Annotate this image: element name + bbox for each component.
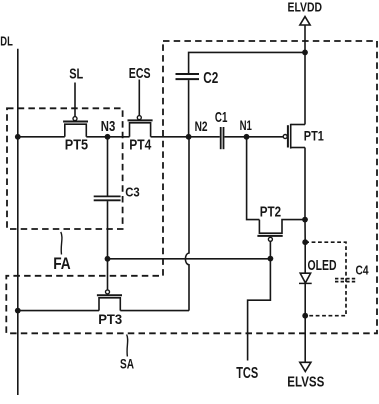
wire OLED bottom to ELVSS xyxy=(304,316,306,362)
svg-text:PT5: PT5 xyxy=(65,138,88,154)
svg-text:N2: N2 xyxy=(195,118,208,134)
capacitor C1 xyxy=(221,127,224,149)
svg-text:PT4: PT4 xyxy=(129,138,151,154)
node junction ELVDD-C2 xyxy=(302,50,308,56)
svg-text:PT2: PT2 xyxy=(260,204,281,220)
power symbol ELVDD arrow xyxy=(300,17,310,25)
transistor PT5 xyxy=(63,117,88,137)
wire PT4 to N2 xyxy=(151,136,189,138)
wire PT2 gate lead down xyxy=(269,241,271,258)
node N1 xyxy=(244,134,250,140)
wire main row left (DL to PT5) xyxy=(18,136,65,138)
transistor PT3 xyxy=(97,290,122,311)
wire N3 to PT4 xyxy=(108,136,130,138)
node junction DL-row1 xyxy=(15,134,21,140)
svg-text:PT1: PT1 xyxy=(304,127,324,143)
svg-text:ELVDD: ELVDD xyxy=(288,0,323,14)
wire N1 branch down to PT2 xyxy=(247,137,260,220)
svg-text:C3: C3 xyxy=(125,185,140,200)
node junction OLED top xyxy=(302,239,308,245)
node junction PT2-PT1 source xyxy=(302,217,308,223)
capacitor C2 xyxy=(176,74,200,79)
capacitor C4 dashed plates xyxy=(335,279,356,282)
wire C3 junction to PT2 gate junction xyxy=(108,258,271,260)
svg-text:C4: C4 xyxy=(356,263,369,277)
wire PT3 to riser xyxy=(120,310,189,312)
wire PT1 drain from ELVDD junction xyxy=(304,52,306,124)
wire OLED to bottom junction xyxy=(304,283,306,315)
svg-text:ELVSS: ELVSS xyxy=(287,374,324,390)
wire riser PT3 to N2 with hop xyxy=(185,137,189,311)
wire top horizontal to C2 branch xyxy=(189,52,305,73)
svg-text:SA: SA xyxy=(120,356,134,372)
wire PT3 gate lead xyxy=(107,259,109,290)
wire N3 branch down to C3 xyxy=(107,137,109,196)
wire SL gate lead xyxy=(74,83,76,117)
svg-text:FA: FA xyxy=(53,254,70,273)
capacitor C3 xyxy=(94,196,121,200)
svg-text:C1: C1 xyxy=(215,109,228,126)
node junction C3-PT3 gate xyxy=(105,256,111,262)
svg-text:PT3: PT3 xyxy=(98,311,122,327)
transistor PT4 xyxy=(128,116,153,137)
wire DL data line vertical xyxy=(17,49,19,395)
wire PT2 gate to TCS xyxy=(248,259,271,361)
wire N1 to PT1 gate xyxy=(247,136,284,138)
transistor PT2 xyxy=(257,220,305,242)
node junction DL-PT3 xyxy=(15,308,21,314)
wire DL to PT3 xyxy=(18,310,99,312)
svg-text:DL: DL xyxy=(0,33,13,48)
dashed region SA xyxy=(6,41,377,333)
power symbol ELVSS arrow xyxy=(300,362,311,371)
node junction OLED bottom xyxy=(302,313,308,319)
leader line FA xyxy=(61,232,62,255)
dashed box C4 xyxy=(305,242,346,316)
wire C1 to N1 xyxy=(224,136,246,138)
wire PT1 source to OLED xyxy=(304,220,306,274)
dashed box FA xyxy=(7,108,123,229)
svg-text:SL: SL xyxy=(69,66,83,83)
svg-text:N1: N1 xyxy=(240,117,252,133)
wire ECS gate lead xyxy=(138,80,140,116)
node junction PT2 gate xyxy=(268,256,274,262)
leader line SA xyxy=(127,335,128,357)
node N2 xyxy=(186,134,192,140)
svg-text:TCS: TCS xyxy=(236,365,258,382)
wire C2 to N2 xyxy=(188,80,190,137)
node N3 xyxy=(105,134,111,140)
wire N2 to C1 xyxy=(189,136,220,138)
svg-text:C2: C2 xyxy=(203,70,218,87)
wire PT5 to N3 xyxy=(86,136,107,138)
wire C3 down to junction xyxy=(107,201,109,259)
wire ELVDD down to junction xyxy=(304,25,306,52)
svg-text:OLED: OLED xyxy=(308,258,337,274)
svg-text:N3: N3 xyxy=(101,119,116,135)
diode OLED xyxy=(299,273,312,283)
wire PT1 source down xyxy=(304,148,306,220)
transistor PT1 xyxy=(283,124,305,149)
